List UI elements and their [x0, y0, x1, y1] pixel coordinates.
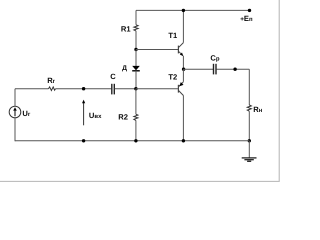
- diode D (anode node A, cathode node B): [135, 50, 137, 67]
- node: T2 collector at bottom rail: [182, 139, 185, 142]
- resistor R1: [134, 25, 138, 31]
- wire: T1 collector to top rail: [182, 10, 184, 42]
- resistor R2 branch: [135, 89, 137, 115]
- wire: source bottom to rail: [14, 118, 16, 142]
- frame right border: [278, 0, 280, 181]
- transistor T1 (NPN): [177, 46, 179, 54]
- node: Uvx tap on bottom rail: [82, 139, 85, 142]
- svg-text:Rг: Rг: [47, 76, 55, 85]
- capacitor C: [111, 84, 113, 95]
- svg-text:R1: R1: [121, 25, 131, 34]
- svg-text:Rн: Rн: [253, 105, 262, 114]
- wire: node A to T1 base: [136, 49, 178, 51]
- node: Rn at bottom rail: [248, 139, 251, 142]
- node: R2 at bottom rail: [134, 139, 137, 142]
- wire: top supply rail: [136, 9, 250, 11]
- node: output tap dot: [233, 68, 236, 71]
- transistor T2 (PNP): [177, 85, 179, 93]
- svg-text:R2: R2: [118, 112, 128, 121]
- wire: source top to input line: [14, 89, 16, 107]
- wire: T2 emitter to node C: [182, 69, 184, 82]
- frame bottom border: [0, 180, 280, 182]
- svg-text:Uвх: Uвх: [89, 111, 102, 120]
- wire: Cp to Rn corner: [217, 68, 250, 70]
- node: T1 collector at rail: [182, 9, 185, 12]
- source Ug: [9, 106, 21, 118]
- node C (output junction): [182, 68, 185, 71]
- svg-text:+Eп: +Eп: [240, 14, 253, 23]
- node B (C / diode cathode / R2 / T2 base): [134, 87, 137, 90]
- node A (R1 / diode anode / T1 base): [134, 48, 137, 51]
- svg-text:T1: T1: [168, 31, 178, 40]
- resistor Rg: [49, 87, 56, 91]
- svg-text:T2: T2: [168, 72, 177, 81]
- wire: input line with Rg: [15, 88, 49, 90]
- wire: Rn branch vertical: [248, 69, 250, 105]
- wire: T2 collector down to bottom rail: [182, 96, 184, 141]
- capacitor Cp: [213, 64, 215, 75]
- wire: bottom rail: [15, 140, 249, 142]
- svg-text:Uг: Uг: [22, 109, 30, 118]
- voltage arrow Uvx: [83, 102, 85, 125]
- wire: C to node B: [115, 88, 136, 90]
- ground: [248, 141, 250, 158]
- node: input tap dot: [82, 87, 85, 90]
- wire: R1 branch vertical (top rail to node A): [135, 10, 137, 24]
- wire: node B to T2 base: [136, 88, 179, 90]
- resistor Rn: [247, 105, 251, 111]
- svg-text:C: C: [110, 72, 116, 81]
- node: +En terminal dot: [248, 9, 251, 12]
- svg-text:Д: Д: [122, 65, 127, 72]
- wire: T1 emitter to node C: [182, 56, 184, 69]
- wire: node C to Cp: [184, 68, 213, 70]
- svg-text:Cр: Cр: [210, 53, 219, 62]
